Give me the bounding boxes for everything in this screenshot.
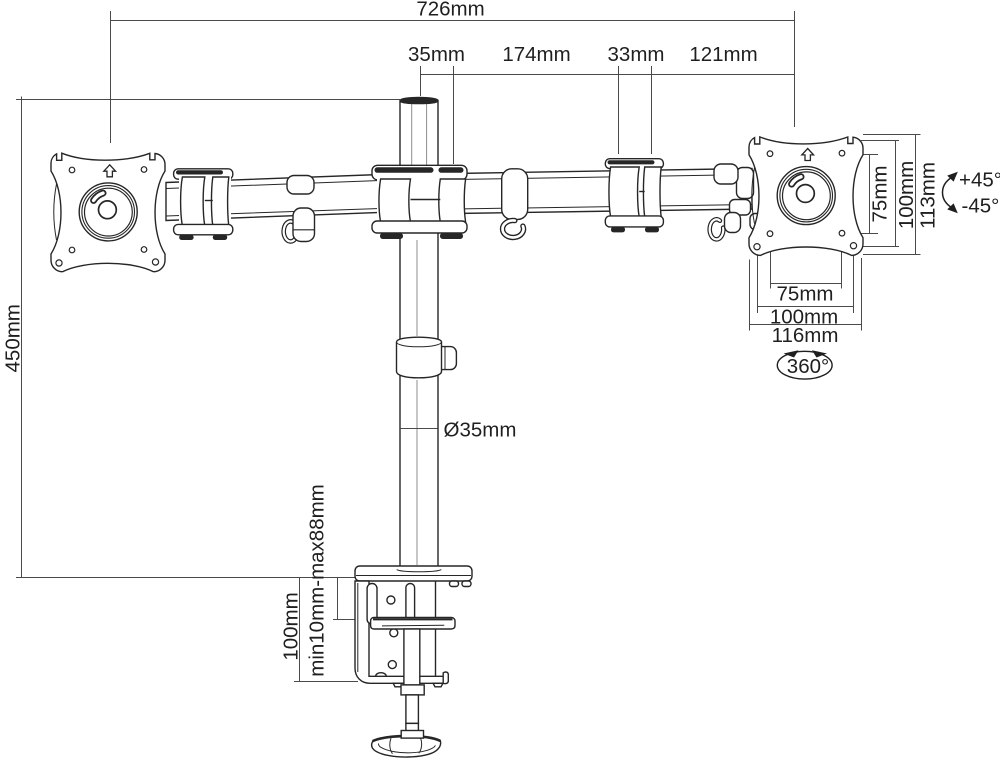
svg-text:113mm: 113mm: [917, 162, 940, 229]
dimension 100mm clamp line: [294, 578, 358, 682]
desk clamp C bracket: [355, 581, 448, 687]
svg-text:75mm: 75mm: [777, 283, 834, 306]
joint left: [174, 169, 233, 240]
dimension 450mm line: [16, 97, 400, 578]
arm tube right segment: [455, 169, 752, 214]
svg-text:116mm: 116mm: [772, 324, 839, 347]
joint center: [372, 165, 467, 239]
svg-text:+45°: +45°: [959, 169, 1000, 192]
left VESA plate: [51, 153, 165, 272]
center pole: [400, 97, 438, 569]
desk clamp knob: [372, 731, 441, 758]
cable clip on right tube middle: [502, 169, 528, 238]
dimension 726mm line: [111, 11, 795, 143]
rotation ellipse 360: [777, 350, 832, 379]
dimension sub-chain line 35/174/33/121: [421, 66, 795, 164]
svg-text:121mm: 121mm: [689, 43, 757, 66]
svg-text:33mm: 33mm: [608, 43, 665, 66]
svg-text:35mm: 35mm: [408, 43, 465, 66]
desk clamp top plate: [355, 566, 472, 587]
desk clamp middle shelf: [371, 618, 455, 630]
cable clip on left tube: [284, 176, 315, 242]
svg-text:100mm: 100mm: [280, 592, 303, 660]
svg-text:360°: 360°: [787, 355, 829, 378]
pole collar with lever: [397, 337, 457, 378]
joint right stubs at right plate: [730, 168, 765, 230]
svg-text:100mm: 100mm: [895, 161, 918, 229]
dimension min10mm-max88mm line: [333, 578, 361, 620]
svg-text:min10mm-max88mm: min10mm-max88mm: [306, 484, 329, 677]
rotation arc +45/-45: [943, 172, 958, 213]
right plate horizontal dims 75/100/116: [750, 238, 862, 331]
svg-text:Ø35mm: Ø35mm: [444, 419, 517, 442]
arm tube left segment: [166, 175, 380, 221]
desk clamp screw rod: [401, 629, 424, 731]
svg-text:726mm: 726mm: [416, 0, 484, 21]
svg-text:174mm: 174mm: [502, 43, 570, 66]
svg-text:450mm: 450mm: [2, 304, 25, 372]
right VESA plate: [749, 137, 863, 256]
right plate vertical dims 75/100/113: [853, 135, 921, 255]
svg-text:-45°: -45°: [962, 195, 1000, 218]
joint second 33mm: [605, 159, 663, 233]
diameter tick line on pole: [400, 428, 438, 430]
cable clip near right joint: [710, 164, 741, 239]
svg-text:75mm: 75mm: [869, 166, 892, 223]
